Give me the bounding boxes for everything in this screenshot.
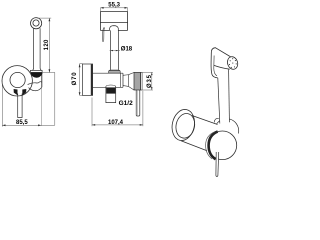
- dim 107,4 extension right: [142, 91, 144, 126]
- valve knob inner circle: [10, 72, 25, 87]
- hose tube (white filled over ferrule): [218, 69, 230, 124]
- valve body top edge: [192, 116, 218, 125]
- knob ring outer rim line: [206, 132, 215, 159]
- arrow O70 bottom: [79, 92, 81, 95]
- fillet arc left of hose tube: [214, 118, 219, 122]
- grip inner line: [214, 56, 217, 76]
- arrow O35 bottom: [151, 87, 153, 90]
- hose tube below nut: [136, 90, 140, 116]
- spray head face plate line: [100, 21, 127, 23]
- arrow O18 right: [116, 50, 119, 51]
- dim O35 line: [151, 72, 153, 90]
- dim 85,5 extension right: [54, 73, 56, 126]
- wall flange circle (side view): [2, 66, 32, 96]
- dim 55,3 extension lines: [100, 8, 127, 11]
- arrow O70 top: [79, 64, 81, 67]
- wall plate (edge view): [82, 64, 92, 95]
- holder back edge extension line down to dimension: [41, 88, 43, 126]
- handset top cap inner circle: [33, 20, 39, 26]
- lever handle rod: [18, 94, 22, 118]
- arrow 107,4 right: [140, 124, 143, 126]
- wall plate dark edge shading: [91, 64, 93, 95]
- holder ring rim band: [30, 70, 42, 72]
- svg-text:Ø18: Ø18: [121, 46, 133, 52]
- arrow 107,4 left: [92, 124, 95, 126]
- lever joint dark wedge left: [14, 89, 18, 95]
- grip outer left edge: [211, 53, 218, 78]
- knob dark ring: [209, 132, 218, 160]
- hose tube left edge: [218, 78, 220, 124]
- dim O70 extension top: [80, 63, 83, 65]
- dim O35 extension lines: [141, 72, 153, 90]
- arrow 85,5 left: [2, 124, 5, 126]
- arrow 55,3 right: [125, 7, 128, 9]
- G1/2 stub dome top: [106, 85, 116, 87]
- hose ferrule disc: [216, 119, 238, 134]
- lever joint dark wedge right: [22, 89, 26, 95]
- dim 55,3 line: [100, 7, 127, 9]
- dim O70 extension bottom: [80, 94, 83, 96]
- arrow O35 top: [151, 72, 153, 75]
- arrow 120 top: [49, 18, 51, 21]
- hose tube right edge: [228, 69, 231, 122]
- dim 107,4 extension left: [91, 98, 93, 127]
- dim 85,5 line: [2, 124, 55, 126]
- outlet cone to hose nut: [121, 73, 134, 91]
- holder bracket lower wave line: [29, 87, 42, 91]
- dim 120 line: [48, 18, 50, 72]
- svg-text:120: 120: [44, 39, 50, 50]
- spray head top edge: [211, 48, 230, 57]
- valve body block: [93, 73, 123, 87]
- handset handle tube left edge with flare: [32, 28, 33, 70]
- svg-text:55,3: 55,3: [108, 2, 120, 8]
- svg-text:G1/2: G1/2: [119, 100, 133, 107]
- spray face ellipse: [226, 55, 239, 70]
- holder bracket right edge: [41, 75, 43, 88]
- spray head bottom edges with neck bump: [100, 26, 127, 31]
- holder bracket upper wave line: [28, 82, 42, 85]
- trigger clip on head left side: [102, 27, 104, 41]
- G1/2 stub knurled dark band: [106, 88, 115, 94]
- valve flange inner rim ellipse: [174, 112, 197, 140]
- hose nut right rim: [141, 72, 143, 90]
- G1/2 stub body: [106, 87, 116, 102]
- spray head bottom edge: [214, 65, 230, 69]
- hose nut knurled area: [134, 72, 141, 90]
- dim O18 leader line: [110, 50, 120, 52]
- lever pin: [216, 152, 219, 176]
- spray head outline: [100, 12, 127, 31]
- svg-text:Ø35: Ø35: [147, 74, 153, 88]
- dim 85,5 extension left: [1, 82, 3, 127]
- arrow 55,3 left: [100, 7, 103, 9]
- valve body bottom edge: [181, 141, 207, 151]
- arrow 120 bottom: [49, 69, 51, 72]
- arrow 85,5 right: [38, 124, 41, 126]
- dim 107,4 line: [92, 124, 143, 126]
- hose tube inner shading line: [136, 90, 138, 115]
- dim 120 extension line top: [37, 17, 51, 19]
- valve flange outer ellipse: [169, 107, 197, 142]
- holder cradle dark lens: [31, 73, 42, 78]
- svg-text:107,4: 107,4: [108, 120, 124, 126]
- handset top cap outer circle: [30, 18, 41, 29]
- handle tube left edge: [109, 30, 111, 70]
- dim O70 line: [79, 64, 81, 96]
- tube base flare dark top line: [109, 70, 120, 72]
- svg-text:85,5: 85,5: [16, 120, 28, 126]
- knob cap circle: [208, 131, 237, 160]
- svg-text:Ø70: Ø70: [72, 72, 78, 86]
- spray face holes: [229, 58, 237, 68]
- handle tube right edge: [117, 30, 119, 70]
- arrow O18 left: [110, 50, 113, 51]
- handset handle tube right edge with flare: [40, 28, 41, 70]
- dim 120 extension line bottom: [43, 72, 55, 74]
- tube base flare on valve body: [109, 70, 121, 73]
